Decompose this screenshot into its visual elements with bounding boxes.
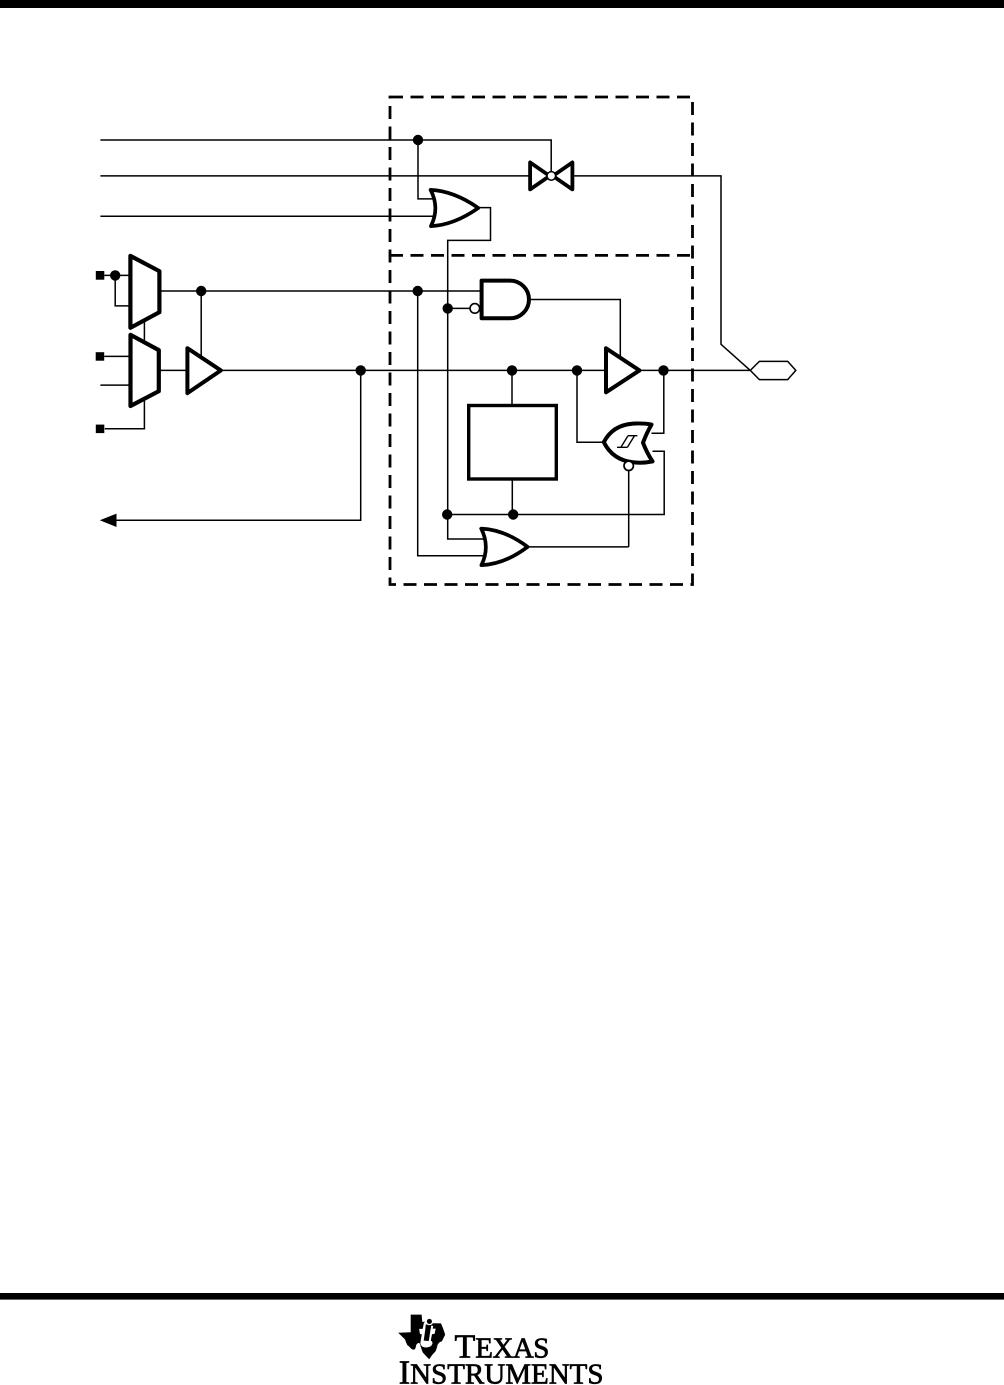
wire: mux M1 output line to AND gate G2 input 1 (159, 290, 481, 292)
black letter i stem (424, 1325, 431, 1341)
wire: mux M1 to mux M2 cascade (143, 320, 145, 342)
wire: node D down to OR gate G4 input 2 (418, 291, 484, 556)
junction node on input line 1 (413, 135, 423, 145)
wire: input line 1 into node, over to pass-gate control (100, 140, 551, 172)
junction node lower rail under box (508, 509, 518, 519)
gate G3 output bubble (624, 461, 633, 470)
schmitt gate G3 (left-pointing) (604, 423, 653, 462)
bottom rule bar (0, 1293, 1004, 1300)
wire: branch to AND gate G2 inverted input bubble (448, 307, 471, 309)
state silhouette (398, 1315, 445, 1360)
wire: input line 3 to OR gate G1 (100, 215, 440, 217)
dashed block: outer boundary (390, 97, 693, 585)
junction node at pin 1 (110, 270, 120, 280)
wire: input line 2 to pass gate (100, 175, 529, 177)
wire: node C down to buffer B1 enable (200, 291, 202, 357)
junction node at bubble branch (443, 303, 453, 313)
wire: input line to mux M2 input b (100, 384, 130, 386)
wire: buffer B1 output main line to buffer B2 (221, 369, 606, 371)
wire: lower rail over and up to gate G3 lower input (447, 451, 664, 514)
wire: node A down into OR gate G1 input 1 (418, 140, 440, 199)
pass gate control bubble (547, 172, 556, 181)
arrowhead on feedback output (100, 514, 117, 527)
wire: gate G3 upper input up to output node (652, 370, 664, 433)
dashed divider between sections (390, 254, 693, 257)
wire: pin square 2 to mux M2 input a (104, 355, 130, 357)
pin square 3 (96, 425, 105, 434)
wire: main line down to hold box (511, 370, 513, 405)
wire: OR gate G1 output zigzag down to OR gate G4 input 1 (448, 208, 491, 539)
black i dot (427, 1319, 432, 1324)
wire: buffer B2 output to pad (640, 369, 751, 371)
wire: AND gate G2 output to buffer B2 enable (529, 300, 620, 357)
wire: node B loop to mux M1 input b (115, 275, 130, 306)
pass gate (bowtie) right triangle (553, 162, 573, 189)
OR gate G1 (top block) (431, 190, 479, 226)
junction node lower rail left (442, 509, 452, 519)
OR gate G4 (bottom) (481, 529, 527, 566)
junction node on output line (658, 365, 668, 375)
junction node on mux M1 output (196, 286, 206, 296)
wire: mux M2 output to buffer B1 (159, 369, 188, 371)
junction node above G3 tip branch (572, 365, 582, 375)
wire: pin square 3 up into mux M2 select (105, 399, 145, 429)
buffer B2 (606, 348, 640, 392)
junction node above hold box (507, 365, 517, 375)
mux M2 (lower trapezoid) (131, 335, 159, 406)
wire: hold box bottom to lower rail (511, 479, 513, 515)
wire: pin square 1 to mux M1 input a (104, 274, 130, 276)
AND gate G2 input bubble (470, 304, 480, 314)
wire: pass gate output to pad branch (574, 176, 751, 371)
output pad hexagon (750, 361, 796, 379)
wire: gate G3 bubble down to OR gate G4 output line (628, 471, 630, 547)
pin square 2 (96, 352, 105, 361)
pin square 1 (96, 271, 105, 280)
wire: OR gate G4 output (526, 546, 629, 548)
top header bar (0, 0, 1004, 8)
mux M1 (upper trapezoid) (130, 256, 159, 328)
white letter t (stem, crossbar, bowl, right stroke) (419, 1322, 436, 1347)
pass gate (bowtie) left triangle (530, 162, 550, 189)
white notch around i dot (426, 1318, 434, 1326)
wire: feedback line down and left to arrow (113, 370, 361, 520)
buffer B1 (187, 348, 221, 393)
hold box U1 (469, 406, 557, 480)
svg-text:INSTRUMENTS: INSTRUMENTS (399, 1355, 604, 1385)
hysteresis symbol inside G3 (617, 436, 637, 448)
junction node at AND branch (413, 286, 423, 296)
white sliver right of i stem above crossbar (431, 1326, 434, 1329)
AND gate G2 (482, 281, 529, 319)
wire: main line down to gate G3 input tip (577, 370, 604, 442)
junction node at feedback branch (356, 365, 366, 375)
TI logo: texas state mark (398, 1315, 445, 1360)
